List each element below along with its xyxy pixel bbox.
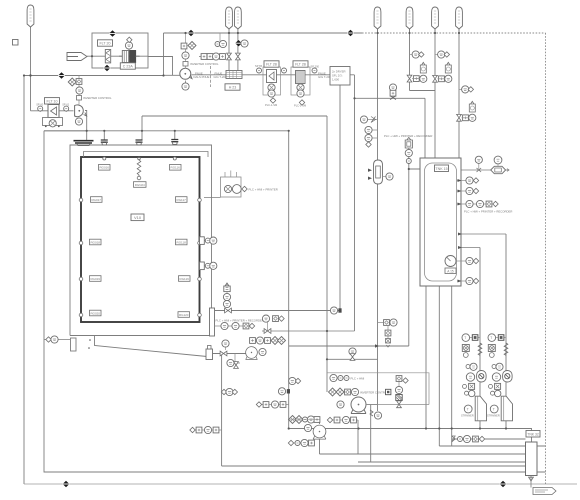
valve stack in FLT20 [105,50,110,63]
svg-text:RG119: RG119 [180,277,190,281]
svg-text:INVERTER CONTROL: INVERTER CONTROL [190,62,219,66]
row T + dark box y337.5 [470,337,481,339]
drain line instrument left [44,336,70,343]
ventD column instruments [365,126,378,147]
pump P66 [180,68,192,79]
heater H23 [226,71,242,79]
port label RG117 right [176,197,188,203]
wire link y359 [327,358,378,360]
wire drop x221.6 [221,354,223,467]
manifold outlet valve [529,476,534,488]
svg-text:RG018: RG018 [90,240,100,244]
stack x393 [389,84,396,100]
port label RG119 right [179,276,191,282]
filter FLT10 body [48,105,59,118]
row y419.5 left of pump2 [289,416,320,424]
TNK15 row y191 [457,187,479,194]
row INVERTER y392 [329,388,391,396]
cluster row y318 [262,315,284,322]
svg-text:GIG T-200: GIG T-200 [318,75,331,79]
instrument left of pump1 [337,401,344,408]
flow diamond FLT20 bottom [104,65,111,71]
stub circle diamond on x288 y381 [289,377,301,384]
wire row link to manifold [452,439,546,446]
svg-text:PLC-1-SM: PLC-1-SM [294,104,306,108]
port label RG019 left [90,276,102,282]
wire nozzle4 feed [174,131,176,140]
port label RG017 left [91,197,103,203]
row PLC HMI y378 [330,374,365,381]
filter package FLT10 [31,76,112,128]
relief stack above y310 [223,283,230,308]
wire inner border [44,131,546,472]
vessel V10 inner shell [81,157,200,322]
TNK15 right top line [461,156,509,174]
wire top header line dotted [362,32,546,34]
wire vent stems top [229,29,459,71]
compressor C23A [119,51,140,63]
tank TNK15 [420,158,461,286]
valve on outlet [220,351,227,356]
wire suction y111 [31,76,74,111]
label C 23A [120,63,135,69]
filter package FLT20 enclosure [92,33,173,76]
drain sub box [43,118,63,126]
vent stack B [226,7,233,29]
svg-text:INVERTER CONTROL: INVERTER CONTROL [360,390,389,394]
wire riser x340 down [339,85,341,310]
manifold tank TNK32 [526,442,538,476]
vessel lid line [84,152,209,158]
svg-text:SP 200: SP 200 [311,65,320,69]
nozzle N2 [101,140,108,145]
label TNK 15 [435,165,449,172]
wire drop x358 [358,405,371,463]
label RGN2x center [134,182,147,188]
nozzle N3 [136,140,143,145]
instrument with bar at end of y310 [330,307,341,314]
wire bus y462 [358,461,526,463]
svg-text:RG020: RG020 [90,311,100,315]
wire TNK15 bottom drops [426,287,452,447]
pump1 main [351,397,366,414]
svg-text:PLC + HMI + PRINTER + RECORDER: PLC + HMI + PRINTER + RECORDER [464,210,512,214]
wire bus y439 row [452,438,526,440]
instrument T left pump2 [304,424,311,431]
port label RG020 left [90,310,102,316]
wire top header line [164,32,363,34]
right column cluster x399 [395,376,408,408]
row y443 on x288 [288,439,314,446]
box cross + small circle y386 [469,383,475,389]
ventF instruments [435,51,449,58]
port label RG116 right [170,165,182,171]
svg-text:T: T [467,408,469,412]
wire nozzle3 feed [141,116,143,140]
expansion coil on line [478,343,482,355]
pump1b transfer pump [246,347,258,360]
wire vent E column [410,29,436,91]
wire FLT10 discharge loop [44,130,87,132]
nozzle discharge line y310 [215,310,341,312]
wall port dots [79,157,201,317]
wire outer border bottom [24,483,577,485]
bottom right nozzle block [210,308,215,336]
svg-text:SP 60: SP 60 [36,103,44,107]
svg-text:GIG T-200: GIG T-200 [214,75,227,79]
side nozzle right y240 [200,237,217,245]
wire riser x163 [163,33,165,76]
arrow y346 [289,345,409,347]
wire left feed horizontal y75 [24,75,164,77]
svg-text:DALS PNUE: DALS PNUE [194,75,210,79]
ventG instruments [459,86,473,93]
label TNK 32 [526,431,540,438]
support leg [71,338,77,351]
valve circle pair x372 [370,410,382,419]
svg-text:FLT 2B: FLT 2B [295,63,307,67]
svg-text:RG118: RG118 [177,240,187,244]
svg-text:RG116: RG116 [171,166,181,170]
label FLT 20 [98,40,113,46]
svg-text:RG019: RG019 [90,277,100,281]
svg-text:FLT 10: FLT 10 [46,99,57,103]
wire instrument drop x408.8 [409,140,420,347]
wire y98 link to TNK15 [355,84,426,159]
svg-text:TNK 15: TNK 15 [435,167,447,171]
inline vessel on ventD [368,160,393,184]
svg-text:C 23A: C 23A [123,65,134,69]
instrument T below P66 [182,81,189,91]
control chain above pump [78,76,80,105]
port label RG016 left [99,165,111,171]
wire lance through box [87,55,148,57]
wire pump inlet [164,74,181,76]
box with cross [462,345,469,352]
svg-text:FLT 20: FLT 20 [99,42,110,46]
svg-text:INVERTER CONTROL: INVERTER CONTROL [83,96,112,100]
vent stack F [432,7,439,29]
svg-text:SP 65: SP 65 [255,64,263,68]
wire bus y466 [222,465,526,467]
svg-text:PLC + HMI: PLC + HMI [351,376,365,380]
wire vent G column [458,29,460,158]
flow diamond bottom left [63,481,70,487]
strainer unit 2 [487,334,513,421]
vent stack C [235,7,242,29]
flow diamond FLT20 top [109,30,116,36]
svg-text:RGN24: RGN24 [135,183,145,187]
wire drop x319.5 pump2 [319,420,321,454]
flow diamond below vent C [235,40,242,46]
vent stack D [374,7,381,29]
svg-text:FLT 2B: FLT 2B [266,63,278,67]
port label RG120 right [178,312,190,318]
wire vent A stem [30,27,32,76]
svg-text:PLC + HMI + PRINTER: PLC + HMI + PRINTER [249,187,278,191]
vent stack E [406,7,413,29]
instrument T [464,405,472,413]
wire L2 nested line y130.8 [44,130,289,132]
control enclosure pump1 [327,373,429,405]
instrument with bar on x288 [278,388,290,395]
valve on ventD y120 [360,116,377,123]
label H 23 [225,84,240,90]
instrument drop cluster x408.8 [405,137,412,163]
valve on y310 [225,308,232,313]
label FLT 10 [45,98,60,104]
pair y366 [466,365,470,369]
instrument above valve [222,340,229,350]
instrument T below pump [75,118,82,125]
wire nozzle2 feed [103,131,105,140]
flow diamond on y75 [58,72,65,78]
svg-text:V10: V10 [134,215,142,220]
ventE instruments [410,51,424,58]
drain tee with valve [227,354,240,369]
wire pump1 inlet [366,404,378,406]
wire riser x354.5 down [354,75,356,331]
bowtie row y439 [452,435,485,442]
filter unit FLT2B-A [255,61,287,107]
outlet banner flag [533,488,556,495]
svg-text:1,600: 1,600 [332,78,339,82]
instrument SP left [39,111,41,112]
pump FLT10 [75,105,84,117]
control row above pump1b y340.5 [250,337,286,345]
pair y393 [465,391,469,395]
flow diamond bottom right [500,481,507,487]
TNK15 row y261 [456,257,479,264]
hourglass valve pair [227,53,232,60]
wire bus y446 [439,445,525,447]
filter unit FLT2B-B [291,61,310,108]
nozzle N4 [171,140,178,145]
svg-text:PLC + HMI + PRINTER + RECORDER: PLC + HMI + PRINTER + RECORDER [216,319,264,323]
svg-text:SP 61: SP 61 [62,103,70,107]
wire vent D column [377,29,379,411]
wire nozzle1 feed from FLT10 pump [85,111,87,141]
svg-text:RG117: RG117 [177,198,187,202]
TNK15 recirculation loop [458,233,506,250]
drain gauge [49,120,56,127]
instrument right of pump1b [259,348,266,355]
svg-text:TNK 32: TNK 32 [527,432,539,436]
pump2 [313,425,326,439]
side nozzle right y265 [200,262,217,270]
nozzle N1 main flange [74,141,94,146]
drop to valve y330 [262,321,355,333]
TNK15 row y281 [457,277,479,284]
gauge above C23A [125,37,132,50]
P66 control chain [181,33,219,69]
wire riser x288 down [288,131,290,429]
row y420 right of pump2 [327,416,358,423]
wire strainer columns [480,234,506,429]
valve circle on y359 [349,348,356,361]
wire right border vertical [545,33,547,484]
dryer box [330,67,350,86]
port label RG018 left [90,239,102,245]
instrument row y326 [215,322,255,329]
agitator A15 [445,256,456,274]
TNK15 row y180.5 [457,177,479,184]
dashed battery limit [210,66,212,87]
trap cluster right of ventD [378,319,398,347]
wire vent F column [434,29,436,158]
strainer unit 1 [461,334,487,421]
vent stack A [27,5,34,27]
instrument circle beside [241,40,248,47]
TNK15 row y204 [457,200,498,207]
row y430 on x221 [190,426,222,433]
svg-text:STRAINER: STRAINER [461,414,474,417]
offpage connector top left [13,40,19,46]
wire bus y428.5 to manifold top [289,429,532,443]
svg-text:PLC + HMI + PRINTER + RECORDER: PLC + HMI + PRINTER + RECORDER [384,134,432,138]
wire L1 nested line y116 [142,115,327,117]
svg-text:T: T [464,336,466,340]
wire P66 to heater [192,74,227,76]
inlet lance vessel [67,53,87,61]
svg-text:A 15: A 15 [447,269,454,273]
dip tube coil [137,157,141,180]
wire heater to filters [242,74,355,76]
row y404 to x288 [256,401,288,408]
wire outer border left/bottom [23,76,25,485]
filter oval on line y376 [466,373,474,381]
wire riser x327 down [326,116,328,392]
svg-text:H 23: H 23 [229,86,237,90]
svg-text:RG120: RG120 [179,313,189,317]
port label RG118 right [176,239,188,245]
tank bottom outlet block [206,346,213,360]
vent stack G [456,7,463,29]
vessel V10 outer jacket [70,145,212,357]
svg-text:RG016: RG016 [99,166,109,170]
instrument pair near y44 [215,33,227,48]
wire bus y454 [320,453,526,455]
heater control row [199,53,225,60]
PLC HMI PRINTER box [204,171,278,198]
outlet run to pump1b [213,353,246,355]
instrument SP200 [311,65,320,74]
flow diamond on y33 left [188,30,195,36]
strainer body pentagon [475,396,486,421]
svg-text:PLC-1-SM: PLC-1-SM [265,103,277,107]
instrument SP right [65,111,67,112]
sloped skirt [95,336,208,357]
riser instrument x221 y392 [221,388,237,395]
svg-text:RG017: RG017 [91,198,101,202]
flow diamond on y33 right [347,30,354,36]
label V10 [131,214,144,221]
